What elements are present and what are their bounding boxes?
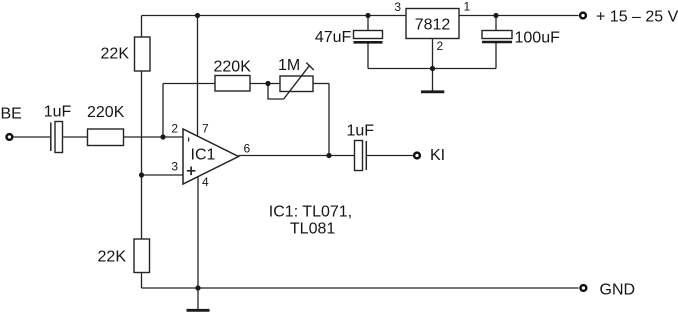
svg-text:+ 15 – 25 V: + 15 – 25 V bbox=[596, 9, 678, 26]
potentiometer 1M bbox=[278, 57, 314, 99]
junction 47uF / top rail bbox=[365, 13, 370, 18]
wire C1 to R input 220K bbox=[63, 136, 87, 138]
svg-text:6: 6 bbox=[244, 142, 251, 156]
svg-text:1: 1 bbox=[464, 0, 471, 14]
junction feedback / pin2 input bbox=[160, 134, 165, 139]
wire top rail right bbox=[459, 15, 579, 17]
wire 7812 pin 2 down bbox=[432, 39, 434, 69]
wire pot corner down to output node bbox=[328, 84, 330, 156]
svg-text:47uF: 47uF bbox=[315, 29, 352, 46]
wire pin 7 to top rail bbox=[197, 16, 199, 137]
svg-text:1M: 1M bbox=[278, 57, 300, 74]
wire divider chain middle bbox=[141, 71, 143, 239]
svg-text:100uF: 100uF bbox=[515, 30, 561, 47]
svg-text:GND: GND bbox=[600, 281, 636, 298]
wire 47uF bottom stem bbox=[367, 44, 369, 69]
junction wiper tap bbox=[265, 81, 270, 86]
wire 1M right to corner bbox=[313, 83, 329, 85]
wire divider chain top bbox=[141, 16, 143, 38]
resistor R 220K input bbox=[87, 104, 125, 146]
resistor R 220K feedback bbox=[214, 59, 252, 92]
svg-text:2: 2 bbox=[171, 122, 178, 136]
terminal BE bbox=[1, 106, 22, 140]
svg-text:TL081: TL081 bbox=[290, 221, 335, 238]
wire op-amp output to C2 bbox=[239, 155, 355, 157]
svg-text:BE: BE bbox=[1, 106, 22, 123]
capacitor C 1uF output bbox=[347, 123, 375, 171]
regulator U 7812 bbox=[394, 0, 470, 53]
ground main bbox=[187, 309, 210, 312]
svg-text:1uF: 1uF bbox=[347, 123, 375, 140]
terminal KI bbox=[414, 147, 445, 164]
junction 100uF / top rail bbox=[493, 13, 498, 18]
plus mark bbox=[187, 167, 196, 176]
wire main ground stem bbox=[197, 288, 199, 309]
svg-text:KI: KI bbox=[430, 147, 445, 164]
svg-text:7: 7 bbox=[202, 122, 209, 136]
minus mark bbox=[188, 138, 190, 142]
junction pin4 / bottom rail bbox=[195, 285, 200, 290]
wire power ground bus bbox=[368, 68, 496, 70]
svg-text:220K: 220K bbox=[87, 104, 125, 121]
svg-text:220K: 220K bbox=[214, 59, 252, 76]
svg-text:22K: 22K bbox=[101, 46, 130, 63]
junction divider / pin3 bbox=[139, 172, 144, 177]
wire 47uF top stem bbox=[367, 16, 369, 31]
capacitor C 1uF input bbox=[44, 104, 72, 153]
svg-text:IC1: IC1 bbox=[191, 147, 216, 164]
wire 220K to 1M bbox=[250, 83, 280, 85]
svg-text:4: 4 bbox=[202, 175, 209, 189]
svg-text:IC1: TL071,: IC1: TL071, bbox=[269, 204, 352, 221]
wire input from BE to C1 bbox=[14, 136, 51, 138]
wire feedback rail to 220K bbox=[163, 83, 215, 85]
wire pin 3 to divider junction bbox=[142, 174, 184, 176]
junction pin7 / top rail bbox=[195, 13, 200, 18]
junction power ground bbox=[430, 66, 435, 71]
wire top rail left bbox=[142, 15, 407, 17]
svg-text:22K: 22K bbox=[98, 249, 127, 266]
op-amp IC1 bbox=[171, 122, 250, 190]
svg-text:7812: 7812 bbox=[415, 17, 451, 34]
resistor R 22K top bbox=[101, 37, 150, 71]
svg-text:2: 2 bbox=[437, 39, 444, 53]
wire power ground stem bbox=[432, 69, 434, 91]
wire bottom ground rail bbox=[142, 287, 579, 289]
wire 100uF bottom stem bbox=[495, 43, 497, 69]
svg-text:3: 3 bbox=[171, 160, 178, 174]
resistor R 22K bottom bbox=[98, 239, 150, 273]
wire 100uF top stem bbox=[495, 16, 497, 31]
terminal GND bbox=[581, 281, 636, 298]
svg-text:1uF: 1uF bbox=[44, 104, 72, 121]
wire pot wiper tap bbox=[268, 84, 284, 100]
ground power section bbox=[421, 90, 444, 93]
wire divider chain bottom bbox=[141, 273, 143, 289]
wire C2 to KI terminal bbox=[367, 155, 413, 157]
terminal +15-25V bbox=[580, 9, 678, 26]
junction output / feedback bbox=[326, 153, 331, 158]
wire 220K to op-amp pin 2 bbox=[124, 136, 184, 138]
svg-text:3: 3 bbox=[394, 0, 401, 14]
wire feedback vertical to pin2 node bbox=[162, 84, 164, 138]
capacitor C 47uF bbox=[315, 29, 383, 46]
wire pin 4 to bottom rail bbox=[197, 177, 199, 288]
capacitor C 100uF bbox=[482, 30, 560, 47]
